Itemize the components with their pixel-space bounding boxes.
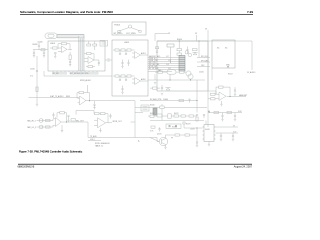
ground xyxy=(61,125,63,131)
pin stubs below U0401 xyxy=(53,71,97,72)
svg-text:R0476: R0476 xyxy=(172,127,177,129)
resistor R0477 xyxy=(175,134,180,136)
wire MIC input pair xyxy=(37,120,54,122)
wire into U0461 xyxy=(208,91,216,94)
resistor R0474 xyxy=(189,115,194,117)
wire net from left to IC xyxy=(197,127,203,129)
resistor R0409 xyxy=(93,44,97,46)
svg-text:FLAT_TX_AUDIO: FLAT_TX_AUDIO xyxy=(50,95,64,98)
capacitor C0441 xyxy=(93,103,95,105)
wire RX audio xyxy=(140,100,197,102)
capacitor C0482 xyxy=(220,135,222,137)
resistor R0456 xyxy=(180,71,185,73)
svg-text:TABLE 7-2: TABLE 7-2 xyxy=(95,144,103,147)
wire mid horizontal xyxy=(148,79,205,81)
capacitor C0432 xyxy=(119,53,121,55)
resistor R0473 xyxy=(181,115,186,117)
wire op-amp1 output xyxy=(86,100,135,102)
svg-text:MIC_HI_1: MIC_HI_1 xyxy=(28,121,36,123)
svg-text:C0476: C0476 xyxy=(190,129,195,131)
svg-text:Q0470: Q0470 xyxy=(157,134,162,136)
svg-text:SPKR_COM: SPKR_COM xyxy=(149,60,158,62)
transistor Q0451 xyxy=(185,51,188,54)
resistor R0454 on 5V drop xyxy=(156,47,159,49)
capacitor C0484 xyxy=(158,128,160,130)
capacitor C0420 xyxy=(38,44,40,46)
capacitor C0443 polarized xyxy=(39,119,43,123)
op-amp U0443 xyxy=(98,118,106,128)
capacitor C0430 xyxy=(36,69,38,71)
ground xyxy=(93,108,95,110)
ground xyxy=(43,56,45,58)
capacitor C0440 xyxy=(121,88,123,90)
transistor Q0450 xyxy=(186,71,191,76)
thermistor RT0470 xyxy=(168,114,171,118)
capacitor C0423 xyxy=(33,51,35,53)
footer rule xyxy=(18,163,252,166)
capacitor C0404 xyxy=(54,52,57,54)
svg-text:SPKR_HI: SPKR_HI xyxy=(149,58,156,60)
capacitor C0478 xyxy=(196,141,198,143)
capacitor C0450 xyxy=(186,49,188,51)
resistor R0402 feedback xyxy=(62,43,67,45)
ground xyxy=(220,139,222,141)
resistor R0412 xyxy=(88,66,93,68)
capacitor C0435 xyxy=(121,62,123,64)
svg-text:R0470: R0470 xyxy=(150,113,155,115)
op-amp U0431A xyxy=(135,52,141,59)
capacitor C0447 xyxy=(67,114,69,116)
wire lower rail xyxy=(150,120,204,122)
box U0471 xyxy=(212,40,235,68)
audio line bus wires xyxy=(148,57,179,59)
resistor R0444 xyxy=(46,126,51,128)
resistor R0458 xyxy=(153,87,158,89)
capacitor C0471 xyxy=(203,114,205,116)
ground under op-amp xyxy=(221,101,223,104)
svg-text:U0431: U0431 xyxy=(124,42,129,44)
wire net AUDIO to opamp xyxy=(29,97,80,99)
wire label left bottom xyxy=(88,140,101,142)
capacitor C0462 xyxy=(234,89,236,91)
resistor ladder R0436 R0437 R0438 xyxy=(115,75,119,77)
capacitor C0446 xyxy=(109,115,111,117)
ground xyxy=(196,145,198,147)
resistor R0421 xyxy=(41,49,45,51)
resistor R0441 xyxy=(79,92,84,94)
wire vertical bus band into U0401 box xyxy=(79,38,84,71)
ground xyxy=(164,147,166,149)
wire below connector xyxy=(148,71,172,73)
wire SPI bus out xyxy=(197,57,210,59)
resistor R0466 xyxy=(160,106,164,108)
resistor R0448 xyxy=(71,119,75,121)
op-amp U0402B xyxy=(88,57,94,64)
resistor R0483 xyxy=(151,126,155,128)
resistor R0451 xyxy=(177,49,182,51)
svg-text:Schematics, Component Location: Schematics, Component Location Diagrams,… xyxy=(20,10,113,14)
svg-text:R0420: R0420 xyxy=(33,44,38,46)
TP0401 test point box xyxy=(112,22,146,35)
svg-text:TP0401: TP0401 xyxy=(114,25,120,27)
resistor R0446 xyxy=(95,113,100,115)
capacitor C0438 xyxy=(125,79,127,81)
resistor R0472 xyxy=(174,115,179,117)
resistor R0460 xyxy=(179,99,184,101)
wire to bottom bus xyxy=(87,122,89,138)
svg-text:R0479: R0479 xyxy=(186,124,191,126)
wire A+ feed right block xyxy=(209,112,242,114)
wire box C stub down xyxy=(211,68,213,80)
potentiometer R0465 hatched xyxy=(153,108,157,115)
svg-text:TX_AUD: TX_AUD xyxy=(90,135,97,138)
svg-text:VOL: VOL xyxy=(30,76,33,78)
connector J0401 xyxy=(179,56,185,72)
capacitor C0437 xyxy=(119,79,121,81)
svg-text:R0457: R0457 xyxy=(228,74,233,76)
resistor R0431 xyxy=(36,87,38,92)
svg-text:MIC_RTN: MIC_RTN xyxy=(149,62,156,64)
svg-text:R0472: R0472 xyxy=(174,113,179,115)
op-amp U0402A xyxy=(62,46,68,53)
resistor R0406 xyxy=(69,55,71,60)
wire base drive to Q0470 xyxy=(150,138,159,142)
svg-text:MIC_LO_1: MIC_LO_1 xyxy=(28,127,37,129)
resistor R0463 op-amp input xyxy=(211,98,216,100)
capacitor C0445 xyxy=(52,114,54,116)
box U0431 audio filter xyxy=(112,40,148,96)
svg-text:C0460: C0460 xyxy=(163,99,168,101)
resistor R0485 vertical xyxy=(196,117,198,121)
connector J0403 on box top xyxy=(100,40,108,46)
resistor R0403 xyxy=(53,47,58,49)
wire vertical feed 208 xyxy=(207,30,209,127)
svg-text:GND_1: GND_1 xyxy=(90,139,95,141)
header rule xyxy=(20,13,253,16)
capacitor C0452 xyxy=(156,50,158,52)
svg-text:R0465: R0465 xyxy=(150,105,155,107)
svg-text:MIC_OUT: MIC_OUT xyxy=(76,120,84,122)
svg-text:SPKR_OUT: SPKR_OUT xyxy=(113,121,122,123)
svg-text:J2-1: J2-1 xyxy=(168,68,171,70)
ground xyxy=(232,139,234,141)
resistor R0408 xyxy=(87,44,91,46)
transistor Q0470 xyxy=(159,137,167,145)
svg-text:HOOK_DET: HOOK_DET xyxy=(149,66,157,68)
wire feedback over U0443 xyxy=(76,110,94,112)
capacitor C0480 xyxy=(221,115,223,117)
op-amp U0441A xyxy=(80,96,87,105)
ground xyxy=(54,56,56,58)
connector P1 cable plug xyxy=(45,33,57,39)
svg-text:J2-5: J2-5 xyxy=(168,60,171,62)
svg-text:J2-3: J2-3 xyxy=(166,64,169,66)
resistor R0455 xyxy=(158,71,163,73)
resistor R0410 xyxy=(87,53,92,55)
svg-text:R435: R435 xyxy=(66,96,70,98)
capacitor C0461 xyxy=(188,98,190,100)
svg-text:C0420: C0420 xyxy=(38,41,43,43)
wire stub to U0481 xyxy=(205,121,207,125)
resistor R0452 xyxy=(177,53,182,55)
svg-text:7-39: 7-39 xyxy=(247,10,253,14)
capacitor C0413 xyxy=(98,62,100,64)
resistor R0480 xyxy=(214,111,219,113)
ground xyxy=(234,119,236,121)
capacitor C0439 between boxes xyxy=(105,59,112,61)
svg-text:EXT_SPKR-: EXT_SPKR- xyxy=(127,33,137,35)
capacitor C0444 polarized xyxy=(39,125,43,129)
box U0401 audio interface xyxy=(48,41,105,71)
test point TP0402 xyxy=(167,44,174,47)
resistor ladder R0432 R0433 R0434 xyxy=(115,49,119,51)
resistor R0462 op-amp input xyxy=(211,93,216,95)
box U0450 audio routing xyxy=(157,41,208,91)
wire 5V down right side xyxy=(251,41,253,70)
filter FL0470 xyxy=(141,105,149,111)
svg-text:INT_MIC: INT_MIC xyxy=(53,73,60,75)
capacitor C0470 xyxy=(196,114,198,116)
ground xyxy=(36,104,38,106)
ground xyxy=(67,120,69,122)
wire op-amp2 out xyxy=(61,121,88,123)
svg-text:AUD1: AUD1 xyxy=(141,52,146,55)
wire vertical down to transistor xyxy=(150,138,159,142)
resistor R0479 xyxy=(183,122,185,124)
ground xyxy=(69,65,71,67)
diode D0451 xyxy=(166,88,170,90)
resistor R0443 xyxy=(46,119,51,121)
IC U0481 regulator xyxy=(204,125,214,142)
svg-text:SPKR_AUDIO: SPKR_AUDIO xyxy=(80,79,92,82)
ground xyxy=(121,92,123,94)
capacitor C0483 xyxy=(232,135,234,137)
ground xyxy=(154,82,156,84)
wire vertical x162 xyxy=(161,104,163,121)
resistor R0461 xyxy=(219,86,224,88)
ground under IC xyxy=(208,142,210,145)
wire into box U0431 xyxy=(44,75,112,77)
wire cable bundle to right xyxy=(57,34,84,37)
wire bias vertical xyxy=(87,85,89,93)
input network left of U0401 xyxy=(33,49,48,51)
svg-text:C0456: C0456 xyxy=(199,72,204,74)
ground xyxy=(161,93,163,95)
wire right of transistor xyxy=(184,127,197,129)
wire vertical 135 stub xyxy=(135,112,143,114)
svg-text:U0401: U0401 xyxy=(50,43,55,45)
capacitor C0481 xyxy=(234,115,236,117)
svg-text:Figure 7-38. PML74034B Control: Figure 7-38. PML74034B Controller Audio … xyxy=(19,150,83,154)
svg-text:U0481: U0481 xyxy=(205,129,210,131)
resistor R0453 xyxy=(193,49,198,51)
resistor R0445 feedback xyxy=(60,112,65,114)
ground xyxy=(100,128,102,131)
svg-text:HANDSET: HANDSET xyxy=(239,94,247,97)
resistor R0447 xyxy=(101,113,106,115)
resistor R0478 xyxy=(185,134,190,136)
svg-text:SPI_CLK: SPI_CLK xyxy=(201,56,208,58)
svg-text:C0430: C0430 xyxy=(30,69,35,71)
wire mid bottom horizontal xyxy=(135,107,207,109)
op-amp U0461 xyxy=(219,92,226,100)
resistor R0470 xyxy=(150,115,154,118)
ground xyxy=(121,66,123,68)
capacitor C0433 xyxy=(125,53,127,55)
resistor R0481 xyxy=(227,111,232,113)
wire vertical net VOL xyxy=(36,56,38,104)
svg-text:6880309N62-B: 6880309N62-B xyxy=(18,166,35,169)
capacitor C0407 xyxy=(69,61,71,63)
ground xyxy=(221,119,223,121)
svg-text:INT_SPKR+: INT_SPKR+ xyxy=(114,33,123,35)
wire vertical right xyxy=(196,80,198,113)
capacitor C0436 xyxy=(127,62,129,64)
wire transistor collector xyxy=(166,134,176,136)
ground xyxy=(234,94,236,96)
ground xyxy=(33,56,35,58)
capacitor C0458 xyxy=(161,87,163,89)
diode D0450 xyxy=(193,52,197,54)
op-amp U0431B xyxy=(135,78,141,85)
svg-text:5V_AUDIO: 5V_AUDIO xyxy=(247,71,256,74)
transistor Q0452 xyxy=(188,53,191,56)
svg-text:August 24, 2007: August 24, 2007 xyxy=(234,166,253,169)
filter FL0450 xyxy=(167,70,176,74)
svg-text:AUD2: AUD2 xyxy=(141,78,146,81)
resistor R0471 xyxy=(157,114,162,117)
wire outputs right xyxy=(216,126,239,128)
resistor pack R0484 xyxy=(166,124,181,129)
svg-text:J2-7: J2-7 xyxy=(166,56,169,58)
capacitor C0422 xyxy=(43,51,45,53)
op-amp U0442 xyxy=(56,118,62,127)
wire 5V rail xyxy=(157,40,252,42)
node labels below U0401 xyxy=(52,72,67,75)
svg-text:RX_AUD_RTN: RX_AUD_RTN xyxy=(150,98,162,101)
